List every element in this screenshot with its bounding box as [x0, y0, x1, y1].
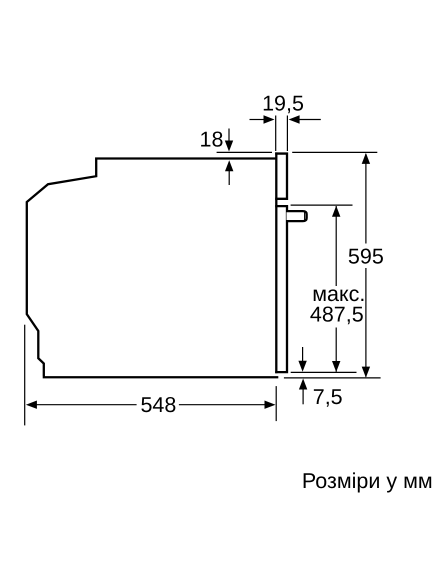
svg-text:595: 595 — [348, 245, 384, 269]
svg-text:7,5: 7,5 — [313, 385, 343, 409]
svg-text:Розміри у мм: Розміри у мм — [302, 469, 433, 493]
svg-text:18: 18 — [200, 127, 224, 151]
svg-text:19,5: 19,5 — [262, 91, 304, 115]
svg-text:487,5: 487,5 — [310, 303, 364, 327]
svg-text:548: 548 — [140, 393, 176, 417]
